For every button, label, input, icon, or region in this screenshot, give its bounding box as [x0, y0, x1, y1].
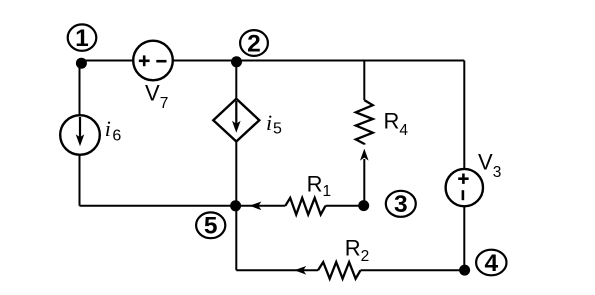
resistor R2: [318, 262, 361, 279]
wire node2 vertical through i5 to node 5: [235, 61, 237, 206]
wire R1 zigzag to node 3: [326, 205, 364, 207]
wire top horizontal node1 to top-right corner: [80, 60, 465, 62]
node 3 junction dot: [358, 200, 369, 211]
resistor R4: [356, 100, 373, 145]
wire lower-left horizontal to node 5: [80, 205, 236, 207]
svg-text:4: 4: [484, 250, 498, 277]
node label 3: [386, 191, 416, 218]
resistor R1: [285, 198, 325, 215]
svg-text:i: i: [105, 116, 111, 141]
wire bottom horizontal left part to R2: [236, 269, 318, 271]
svg-text:5: 5: [273, 121, 282, 138]
wire R4 branch top lead: [363, 61, 365, 101]
node label 2: [240, 30, 268, 57]
node label 4: [476, 250, 506, 277]
voltage source V3: [446, 169, 483, 206]
wire R1 branch node5 to zigzag: [236, 205, 286, 207]
node label 5: [196, 212, 225, 239]
wire left vertical node1 down: [79, 61, 81, 206]
node 4 junction dot: [459, 265, 470, 276]
node label 1: [68, 24, 97, 52]
current source i6: [60, 115, 100, 155]
wire bottom horizontal R2 to node 4: [361, 269, 465, 271]
svg-text:6: 6: [112, 127, 121, 144]
svg-text:2: 2: [247, 30, 261, 57]
svg-text:i: i: [266, 110, 272, 135]
svg-text:1: 1: [75, 25, 89, 52]
svg-text:5: 5: [204, 213, 218, 240]
wire node5 vertical down to bottom rail: [235, 206, 237, 270]
arrowhead left into node 5: [249, 202, 261, 211]
dependent current source i5: [213, 99, 259, 142]
wire node3 up to R4 arrow: [363, 159, 365, 206]
node 2 junction dot: [231, 56, 242, 67]
arrowhead left on bottom rail: [294, 266, 306, 275]
arrowhead up into R4: [360, 149, 369, 161]
svg-text:3: 3: [394, 191, 408, 218]
node 5 junction dot: [230, 200, 241, 211]
wire right vertical through V3: [463, 61, 465, 271]
voltage source V7: [133, 41, 173, 81]
node 1 junction dot: [76, 58, 87, 69]
